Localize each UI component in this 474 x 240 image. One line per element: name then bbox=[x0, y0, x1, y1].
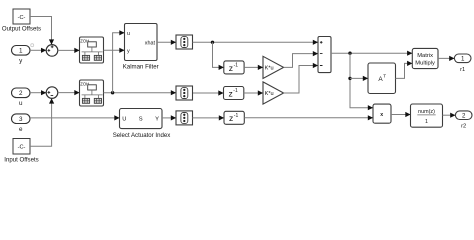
wire Z2 to Gain2 bbox=[244, 92, 263, 94]
block Kalman Filter bbox=[125, 24, 158, 61]
selector block Selector3 bbox=[176, 111, 193, 125]
gain K*u 1 bbox=[263, 56, 284, 78]
unit delay Z2 bbox=[224, 87, 244, 100]
constant block Output Offsets (-C-) bbox=[13, 9, 30, 24]
inport 3 e bbox=[12, 114, 31, 124]
wire Z3 to Product input2 bbox=[244, 117, 372, 119]
wire Selector1 to Sum3 input1 bbox=[193, 41, 318, 43]
wire branch down to Z1 bbox=[213, 42, 224, 67]
svg-text:1: 1 bbox=[425, 119, 428, 125]
wire Product to discrete filter bbox=[391, 114, 410, 116]
svg-text:K*u: K*u bbox=[265, 65, 274, 71]
svg-text:S: S bbox=[139, 116, 143, 122]
svg-text:T: T bbox=[383, 74, 386, 79]
svg-text:Output Offsets: Output Offsets bbox=[2, 26, 41, 33]
svg-text:3: 3 bbox=[19, 116, 23, 123]
wire Gain1 to Sum3 input2 bbox=[284, 54, 318, 68]
svg-text:z: z bbox=[229, 113, 233, 123]
svg-text:y: y bbox=[127, 48, 130, 54]
svg-text:y: y bbox=[19, 58, 23, 65]
wire Sum3 to Matrix Multiply input1 bbox=[331, 52, 412, 54]
constant block Input Offsets (-C-) bbox=[13, 139, 30, 155]
svg-text:1: 1 bbox=[461, 56, 465, 63]
wire Select Actuator Index to Selector3 bbox=[162, 117, 176, 119]
wire Matrix Multiply to outport r1 bbox=[438, 57, 454, 59]
sum block Sum1 bbox=[46, 45, 58, 57]
sum block Sum2 bbox=[46, 87, 58, 99]
wire Z1 to Gain1 bbox=[244, 66, 263, 68]
wire branch to A transpose bbox=[350, 77, 368, 79]
wire Input Offsets to Sum2 bottom bbox=[30, 99, 52, 147]
outport 2 bbox=[455, 111, 472, 120]
wire ZOH2 to Selector2 with junction up to Kalman u input bbox=[104, 92, 176, 94]
svg-text:K*u: K*u bbox=[265, 91, 274, 97]
svg-text:z: z bbox=[229, 88, 233, 98]
wire inport3 to Select Actuator Index bbox=[30, 117, 119, 119]
block Select Actuator Index bbox=[120, 109, 163, 129]
svg-text:r1: r1 bbox=[460, 67, 465, 73]
wire discrete filter to outport r2 bbox=[443, 114, 456, 116]
wire Sum1 to ZOH1 bbox=[58, 49, 79, 51]
wire A transpose to Matrix Multiply input2 bbox=[396, 63, 413, 78]
wire branch up to Kalman u bbox=[113, 33, 125, 93]
node anchor circle at inport 1 wire bbox=[31, 44, 34, 47]
inport 2 u bbox=[12, 88, 31, 98]
svg-text:-C-: -C- bbox=[18, 15, 26, 21]
wire ZOH1 to Kalman y input bbox=[104, 49, 125, 51]
svg-text:num(z): num(z) bbox=[418, 109, 435, 115]
wire branch down to A transpose and Product bbox=[350, 53, 373, 107]
svg-text:u: u bbox=[127, 31, 130, 37]
sum block Sum3 bbox=[318, 37, 331, 73]
svg-text:e: e bbox=[19, 126, 23, 133]
outport 1 bbox=[454, 54, 471, 63]
wire Sum2 to ZOH2 bbox=[58, 92, 79, 94]
svg-text:Kalman Filter: Kalman Filter bbox=[123, 63, 159, 70]
gain K*u 2 bbox=[263, 82, 284, 104]
junction dot at A transpose tap bbox=[348, 77, 351, 80]
subsystem ZOH1 bbox=[80, 37, 104, 63]
wire Gain2 to Sum3 input3 bbox=[284, 66, 318, 94]
svg-text:U: U bbox=[122, 116, 126, 122]
block Matrix Multiply bbox=[412, 48, 438, 68]
svg-text:x: x bbox=[380, 112, 383, 118]
svg-text:xhat: xhat bbox=[145, 40, 156, 46]
wire Kalman xhat to Selector1 bbox=[157, 41, 176, 43]
junction dot ZOH2 branch bbox=[111, 91, 114, 94]
svg-text:1: 1 bbox=[19, 48, 23, 55]
svg-text:Y: Y bbox=[155, 116, 159, 122]
svg-text:Select Actuator Index: Select Actuator Index bbox=[113, 132, 171, 139]
selector block Selector2 bbox=[176, 86, 193, 100]
svg-text:z: z bbox=[229, 63, 233, 73]
unit delay Z1 bbox=[224, 61, 244, 74]
wire inport2 to Sum2 bbox=[30, 92, 46, 94]
svg-text:Multiply: Multiply bbox=[415, 61, 435, 67]
svg-text:Matrix: Matrix bbox=[417, 53, 433, 59]
block A transpose bbox=[368, 63, 396, 94]
wire inport1 to Sum1 bbox=[30, 49, 46, 51]
subsystem ZOH2 bbox=[80, 80, 104, 106]
junction dot sum3 out bbox=[348, 52, 351, 55]
wire Selector2 to Z2 bbox=[193, 92, 224, 94]
svg-text:u: u bbox=[19, 100, 23, 107]
product block x bbox=[373, 104, 391, 123]
inport 1 y bbox=[12, 46, 31, 56]
svg-text:-1: -1 bbox=[234, 113, 239, 119]
selector block Selector1 bbox=[176, 35, 193, 49]
svg-text:2: 2 bbox=[462, 113, 466, 120]
junction dot row1 bbox=[211, 41, 214, 44]
wire Selector3 to Z3 bbox=[193, 117, 224, 119]
svg-text:r2: r2 bbox=[461, 124, 466, 130]
svg-text:2: 2 bbox=[19, 90, 23, 97]
unit delay Z3 bbox=[224, 111, 244, 124]
wire Output Offsets to Sum1 top bbox=[30, 17, 52, 45]
svg-text:-1: -1 bbox=[233, 88, 238, 94]
svg-text:-C-: -C- bbox=[18, 145, 26, 151]
svg-text:Input Offsets: Input Offsets bbox=[4, 157, 38, 164]
discrete filter num(z)/1 bbox=[411, 104, 443, 127]
svg-text:-1: -1 bbox=[234, 62, 239, 68]
